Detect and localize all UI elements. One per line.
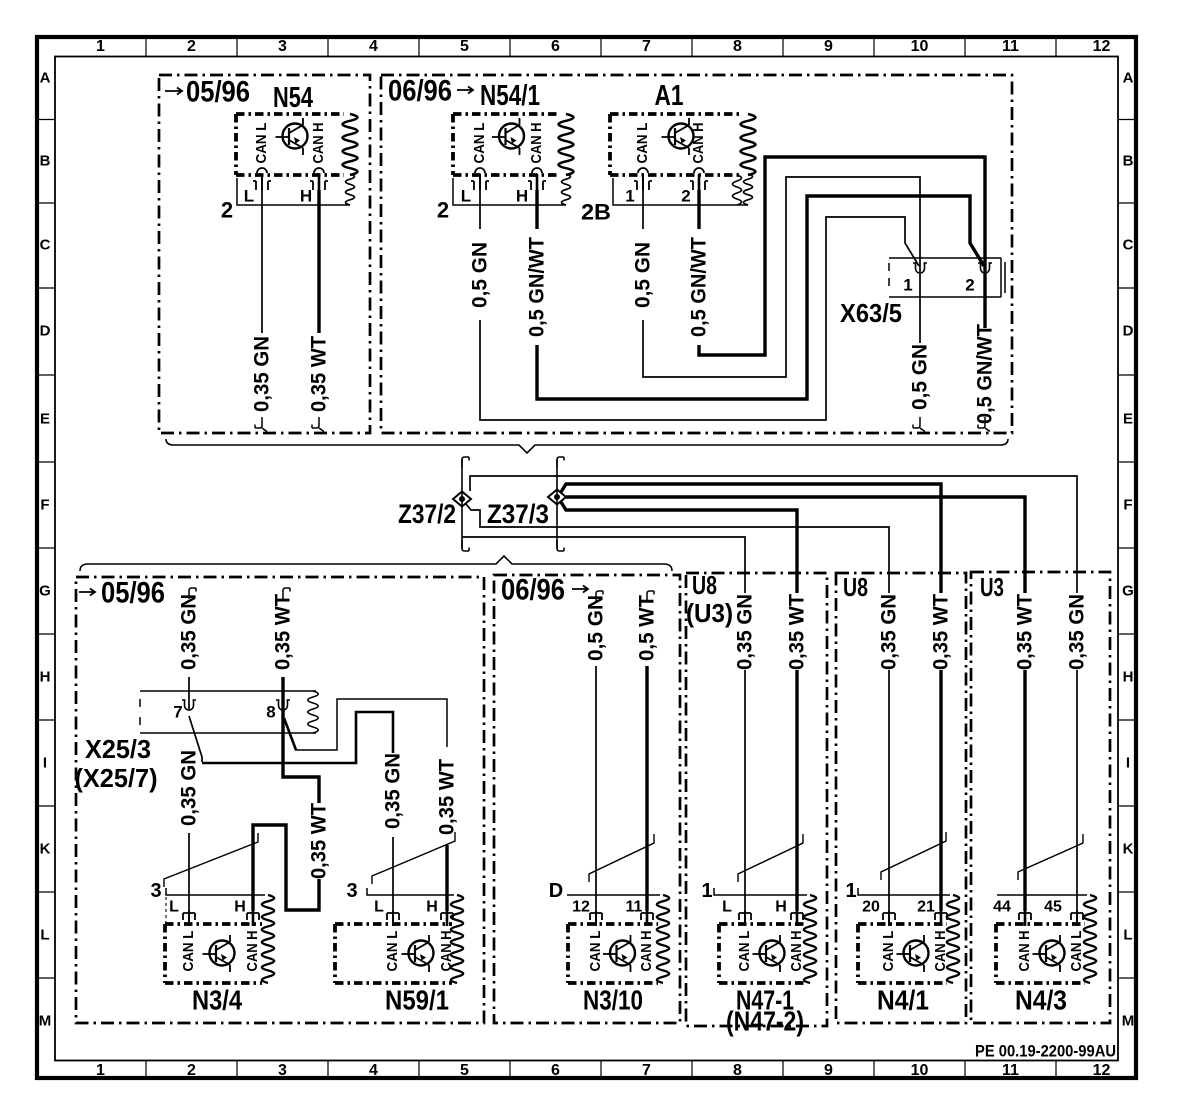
- svg-text:(U3): (U3): [686, 598, 733, 628]
- svg-text:CAN H: CAN H: [245, 931, 261, 972]
- svg-text:L: L: [1123, 927, 1132, 944]
- svg-text:0,35 GN: 0,35 GN: [878, 594, 901, 670]
- svg-text:H: H: [775, 899, 787, 916]
- svg-text:(X25/7): (X25/7): [75, 763, 158, 793]
- svg-text:0,5 GN: 0,5 GN: [909, 344, 932, 410]
- svg-text:06/96: 06/96: [501, 574, 565, 607]
- svg-text:6: 6: [551, 1062, 560, 1079]
- svg-text:0,5 GN/WT: 0,5 GN/WT: [526, 237, 549, 337]
- svg-text:CAN H: CAN H: [311, 123, 327, 164]
- svg-text:5: 5: [460, 1062, 469, 1079]
- svg-text:2: 2: [221, 198, 233, 223]
- svg-text:E: E: [1123, 411, 1133, 428]
- svg-text:B: B: [40, 153, 51, 170]
- svg-text:1: 1: [96, 38, 105, 55]
- svg-text:0,5 GN: 0,5 GN: [585, 595, 608, 661]
- svg-text:7: 7: [173, 703, 182, 722]
- svg-text:2B: 2B: [581, 200, 611, 225]
- svg-text:2: 2: [187, 1062, 196, 1079]
- svg-text:44: 44: [993, 899, 1011, 916]
- svg-text:N4/3: N4/3: [1015, 985, 1067, 1016]
- svg-text:0,35 WT: 0,35 WT: [786, 594, 809, 670]
- svg-text:4: 4: [369, 1062, 378, 1079]
- svg-text:11: 11: [1002, 38, 1019, 55]
- svg-text:4: 4: [369, 38, 378, 55]
- svg-text:CAN L: CAN L: [254, 122, 270, 163]
- svg-text:D: D: [1123, 323, 1134, 340]
- svg-text:2: 2: [437, 198, 449, 223]
- svg-text:0,35 WT: 0,35 WT: [308, 803, 331, 879]
- svg-text:8: 8: [733, 1062, 742, 1079]
- svg-text:20: 20: [862, 899, 880, 916]
- svg-text:CAN H: CAN H: [691, 123, 707, 164]
- svg-text:0,35 GN: 0,35 GN: [734, 594, 757, 670]
- svg-text:7: 7: [642, 1062, 651, 1079]
- svg-text:21: 21: [917, 899, 935, 916]
- svg-text:05/96: 05/96: [186, 76, 250, 109]
- svg-text:0,35 GN: 0,35 GN: [1066, 594, 1089, 670]
- svg-text:CAN L: CAN L: [385, 930, 401, 971]
- svg-text:0,35 WT: 0,35 WT: [930, 594, 953, 670]
- svg-text:CAN H: CAN H: [933, 931, 949, 972]
- svg-text:CAN H: CAN H: [1017, 931, 1033, 972]
- svg-text:(N47-2): (N47-2): [726, 1006, 804, 1037]
- svg-text:N3/10: N3/10: [583, 985, 643, 1016]
- svg-text:9: 9: [824, 38, 833, 55]
- svg-text:0,35 WT: 0,35 WT: [1014, 594, 1037, 670]
- svg-text:D: D: [549, 880, 563, 902]
- svg-text:Z37/2: Z37/2: [398, 499, 456, 529]
- svg-text:CAN L: CAN L: [588, 930, 604, 971]
- svg-text:H: H: [234, 899, 246, 916]
- svg-text:N59/1: N59/1: [385, 985, 449, 1016]
- svg-text:0,35 GN: 0,35 GN: [251, 336, 274, 412]
- svg-text:C: C: [1123, 237, 1134, 254]
- svg-text:L: L: [722, 899, 732, 916]
- svg-text:0,5 WT: 0,5 WT: [636, 595, 659, 661]
- svg-text:X63/5: X63/5: [840, 298, 902, 328]
- svg-text:CAN L: CAN L: [181, 930, 197, 971]
- svg-text:CAN L: CAN L: [635, 122, 651, 163]
- svg-text:I: I: [43, 755, 47, 772]
- svg-text:L: L: [461, 187, 471, 206]
- svg-text:12: 12: [1093, 1062, 1111, 1079]
- svg-text:05/96: 05/96: [101, 577, 165, 610]
- svg-text:CAN H: CAN H: [789, 931, 805, 972]
- svg-text:CAN L: CAN L: [881, 930, 897, 971]
- svg-text:H: H: [426, 899, 438, 916]
- svg-text:0,35 GN: 0,35 GN: [178, 750, 201, 826]
- svg-text:0,35 WT: 0,35 WT: [272, 594, 295, 670]
- svg-text:CAN L: CAN L: [472, 122, 488, 163]
- svg-text:3: 3: [150, 880, 161, 902]
- svg-text:1: 1: [701, 880, 712, 902]
- svg-text:K: K: [40, 841, 51, 858]
- svg-text:K: K: [1123, 841, 1134, 858]
- svg-text:1: 1: [903, 276, 912, 295]
- svg-text:A: A: [40, 70, 51, 87]
- svg-text:9: 9: [824, 1062, 833, 1079]
- svg-text:0,35 WT: 0,35 WT: [308, 336, 331, 412]
- svg-text:1: 1: [625, 187, 634, 206]
- svg-text:CAN H: CAN H: [439, 931, 455, 972]
- svg-text:Z37/3: Z37/3: [487, 499, 549, 529]
- svg-text:0,5 GN: 0,5 GN: [632, 242, 655, 308]
- svg-text:L: L: [169, 899, 179, 916]
- svg-text:12: 12: [572, 899, 590, 916]
- svg-text:10: 10: [911, 38, 929, 55]
- svg-text:U8: U8: [843, 572, 868, 602]
- svg-text:H: H: [516, 187, 528, 206]
- svg-text:1: 1: [845, 880, 856, 902]
- svg-text:L: L: [244, 187, 254, 206]
- svg-text:H: H: [40, 669, 51, 686]
- svg-text:A: A: [1123, 70, 1134, 87]
- svg-text:F: F: [40, 497, 49, 514]
- svg-text:L: L: [40, 927, 49, 944]
- svg-text:U8: U8: [692, 570, 717, 600]
- svg-text:H: H: [1123, 669, 1134, 686]
- svg-text:B: B: [1123, 153, 1134, 170]
- svg-text:E: E: [40, 411, 50, 428]
- svg-text:1: 1: [96, 1062, 105, 1079]
- svg-text:D: D: [40, 323, 51, 340]
- svg-text:G: G: [39, 583, 51, 600]
- svg-text:5: 5: [460, 38, 469, 55]
- svg-text:2: 2: [187, 38, 196, 55]
- svg-text:G: G: [1122, 583, 1134, 600]
- svg-text:0,5 GN/WT: 0,5 GN/WT: [974, 324, 997, 424]
- svg-text:A1: A1: [655, 80, 684, 112]
- svg-text:7: 7: [642, 38, 651, 55]
- svg-text:H: H: [300, 187, 312, 206]
- svg-text:3: 3: [278, 1062, 287, 1079]
- svg-text:N3/4: N3/4: [192, 985, 242, 1016]
- svg-text:06/96: 06/96: [388, 75, 452, 108]
- svg-text:3: 3: [346, 880, 357, 902]
- svg-text:F: F: [1123, 497, 1132, 514]
- svg-text:CAN H: CAN H: [529, 123, 545, 164]
- svg-text:3: 3: [278, 38, 287, 55]
- svg-text:U3: U3: [980, 572, 1004, 602]
- svg-text:CAN H: CAN H: [639, 931, 655, 972]
- svg-text:6: 6: [551, 38, 560, 55]
- svg-text:X25/3: X25/3: [85, 734, 151, 764]
- svg-text:0,35 GN: 0,35 GN: [178, 594, 201, 670]
- svg-text:8: 8: [266, 703, 275, 722]
- svg-text:M: M: [39, 1013, 52, 1030]
- svg-text:0,5 GN: 0,5 GN: [469, 242, 492, 308]
- svg-text:11: 11: [626, 899, 643, 916]
- svg-text:0,35 WT: 0,35 WT: [436, 759, 459, 835]
- svg-text:12: 12: [1093, 38, 1111, 55]
- svg-text:11: 11: [1002, 1062, 1019, 1079]
- svg-text:45: 45: [1044, 899, 1062, 916]
- svg-text:M: M: [1122, 1013, 1135, 1030]
- svg-text:0,5 GN/WT: 0,5 GN/WT: [688, 237, 711, 337]
- svg-text:I: I: [1126, 755, 1130, 772]
- svg-text:2: 2: [681, 187, 690, 206]
- svg-text:N54/1: N54/1: [480, 80, 540, 112]
- svg-text:8: 8: [733, 38, 742, 55]
- svg-text:10: 10: [911, 1062, 929, 1079]
- svg-text:0,35 GN: 0,35 GN: [382, 753, 405, 829]
- svg-text:2: 2: [965, 276, 974, 295]
- svg-text:C: C: [40, 237, 51, 254]
- svg-text:PE 00.19-2200-99AU: PE 00.19-2200-99AU: [975, 1042, 1116, 1061]
- svg-text:CAN L: CAN L: [737, 930, 753, 971]
- svg-text:N4/1: N4/1: [877, 985, 929, 1016]
- svg-text:L: L: [374, 899, 384, 916]
- svg-text:N54: N54: [273, 82, 313, 114]
- svg-text:CAN L: CAN L: [1069, 930, 1085, 971]
